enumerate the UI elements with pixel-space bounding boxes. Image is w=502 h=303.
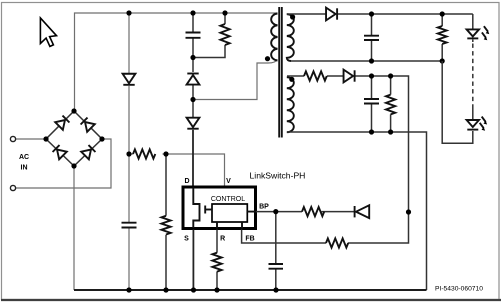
node bridge left: [43, 136, 48, 141]
wire R pin: [216, 230, 218, 291]
LED 2 arrows: [480, 117, 486, 129]
transformer primary winding: [271, 14, 277, 61]
resistor R reference: [212, 253, 221, 272]
svg-text:PI-5430-060710: PI-5430-060710: [435, 286, 483, 293]
node BP junction: [273, 209, 278, 214]
svg-text:CONTROL: CONTROL: [211, 196, 245, 203]
wire ground rail: [74, 289, 427, 291]
wire AC line top: [15, 138, 46, 140]
diode clamp (blocking, cathode up): [187, 74, 200, 85]
bridge diode bottom-left: [52, 145, 67, 160]
IC internal pin stubs: [217, 212, 256, 229]
diode output rectifier: [326, 8, 337, 21]
LED 1: [467, 29, 479, 38]
wire clamp / drain column: [192, 130, 194, 186]
svg-text:AC: AC: [19, 154, 29, 161]
IC control block: [212, 204, 247, 222]
node bias polarity dot: [289, 77, 294, 82]
wire BP pin network: [256, 211, 354, 213]
wire secondary bottom rail: [291, 60, 442, 62]
wire BP capacitor column: [275, 212, 277, 290]
svg-text:LinkSwitch-PH: LinkSwitch-PH: [250, 170, 306, 180]
resistor clamp: [193, 13, 225, 58]
transformer bias winding: [287, 77, 294, 132]
capacitor C1 input filter: [122, 223, 137, 228]
svg-text:BP: BP: [259, 204, 269, 211]
label AC IN: [19, 154, 29, 171]
resistor R line-sense horizontal: [133, 149, 155, 158]
node AC terminal 2: [10, 185, 15, 190]
resistor output preload: [441, 14, 443, 61]
mouse cursor: [40, 18, 56, 46]
diode BP (cathode left): [355, 205, 370, 218]
node AC terminal 1: [10, 136, 15, 141]
resistor bias load: [390, 76, 392, 132]
node clamp RC junction: [190, 55, 195, 60]
transformer secondary winding: [287, 14, 294, 61]
bridge diode bottom-right: [81, 145, 96, 160]
LED 1 arrows: [482, 26, 488, 38]
wire secondary top rail: [287, 13, 473, 15]
IC mosfet: [193, 188, 199, 229]
diode series (anode up): [187, 118, 200, 129]
node secondary rail junctions: [369, 11, 374, 16]
wire AC line bottom: [15, 139, 111, 188]
node bridge right: [99, 136, 104, 141]
resistor FB: [326, 238, 348, 247]
svg-text:D: D: [184, 178, 189, 185]
node secondary polarity dot: [290, 14, 295, 19]
IC U1 LinkSwitch-PH body: [183, 187, 256, 229]
node line sense junctions: [126, 151, 131, 156]
wire line-sense to V pin: [129, 154, 225, 188]
wire input cap column: [128, 13, 130, 290]
resistor bias: [304, 71, 327, 80]
node bridge top: [71, 108, 76, 113]
wire bias plus rail: [287, 76, 409, 212]
wire LED string top: [472, 14, 474, 29]
transformer core: [279, 7, 282, 138]
wire top rail: [75, 13, 278, 111]
svg-text:IN: IN: [21, 165, 28, 172]
node ground junctions: [126, 287, 131, 292]
wire LED string return: [442, 61, 473, 143]
wire S pin to ground: [192, 230, 194, 291]
svg-text:S: S: [184, 236, 189, 243]
node bias feedback junction: [406, 209, 411, 214]
diode D1 input (top rail to C1): [123, 74, 136, 85]
svg-text:FB: FB: [245, 236, 254, 243]
svg-text:R: R: [220, 236, 225, 243]
node primary polarity dot: [265, 56, 270, 61]
wire primary bottom to drain node: [193, 60, 277, 100]
capacitor output: [371, 14, 373, 61]
node drain junction: [190, 97, 195, 102]
resistor R line-sense vertical: [165, 154, 167, 290]
wire bias return rail: [287, 132, 427, 290]
svg-text:V: V: [226, 178, 231, 185]
resistor BP: [302, 207, 324, 216]
node top rail junctions: [126, 10, 131, 15]
wire LED string dashed: [472, 40, 474, 43]
bridge diode top-right: [80, 117, 95, 132]
LED 2: [467, 120, 479, 130]
wire bridge bottom to ground rail: [73, 166, 75, 290]
node bridge bottom: [71, 163, 76, 168]
bridge diode top-left: [55, 115, 70, 130]
node bias junctions: [369, 73, 374, 78]
capacitor BP: [269, 264, 284, 269]
wire FB pin network: [242, 212, 409, 243]
diode bias rectifier: [344, 70, 355, 83]
capacitor bias: [371, 76, 373, 132]
bridge rectifier legs: [46, 111, 102, 166]
capacitor clamp: [186, 33, 201, 38]
